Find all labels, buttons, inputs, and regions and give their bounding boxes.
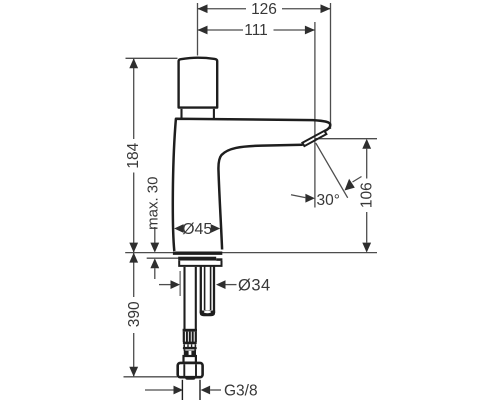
- wire: extension line at knob top (184 top reference): [126, 57, 178, 59]
- thread pipe walls: [181, 380, 183, 400]
- hose barrel ridges: [184, 344, 195, 347]
- wire: axis extension line above knob: [197, 3, 199, 56]
- nut bottom tab: [185, 377, 195, 379]
- dimension 111 line: [198, 29, 244, 31]
- svg-text:390: 390: [126, 301, 143, 327]
- svg-text:Ø34: Ø34: [238, 276, 271, 294]
- svg-text:max. 30: max. 30: [145, 177, 162, 230]
- dimension Ø34: [159, 284, 171, 286]
- dimension 106 vertical line: [366, 149, 368, 179]
- hose ridged collar: [184, 332, 196, 342]
- wire: Ø34 left extension line: [179, 271, 181, 296]
- svg-text:106: 106: [358, 182, 375, 208]
- dimension G3/8: [145, 389, 174, 391]
- svg-text:184: 184: [125, 142, 142, 168]
- wire: deck bottom line: [147, 257, 179, 259]
- hose band 1: [183, 329, 197, 332]
- flange dark bar: [178, 257, 216, 261]
- right tube bottom cap: [200, 311, 215, 317]
- right tube outer walls: [200, 266, 202, 313]
- body and spout top outline: [173, 119, 330, 251]
- flange lower outline: [179, 261, 221, 266]
- wire: aerator height reference line: [315, 138, 377, 140]
- hose band 2: [183, 342, 197, 345]
- 30deg arrow at plumb line: [305, 194, 315, 203]
- svg-text:30°: 30°: [317, 192, 340, 209]
- connector gap walls: [183, 349, 185, 350]
- dimension 184 vertical line: [133, 58, 135, 139]
- handle knob: [179, 58, 218, 108]
- body bottom bar: [173, 252, 222, 255]
- dimension max. 30 vertical line: [154, 227, 156, 246]
- svg-text:111: 111: [244, 22, 268, 39]
- connector dark block: [184, 351, 196, 356]
- dimension 390 vertical line: [133, 253, 135, 297]
- wire: deck top line: [125, 252, 377, 254]
- aerator (angled): [302, 131, 326, 146]
- wire: extension line at hose bottom (390 bottom reference): [124, 376, 178, 378]
- hose band 3: [183, 347, 197, 350]
- right tube inner walls: [204, 266, 206, 310]
- svg-text:Ø45: Ø45: [182, 221, 212, 238]
- shank left pipe: [183, 267, 185, 330]
- collar above nut: [184, 356, 196, 363]
- dimension Ø45: [174, 224, 184, 233]
- wire: aerator plumb extension line (right end of 111): [314, 22, 316, 208]
- handle neck: [180, 109, 182, 119]
- wire: 30deg diagonal line: [316, 143, 348, 198]
- spout underside and body right edge: [218, 145, 302, 250]
- svg-text:126: 126: [251, 1, 277, 18]
- dimension 126 line: [198, 8, 247, 10]
- wire: spout-tip extension line (right end of 126): [330, 3, 332, 129]
- flange step: [216, 258, 222, 261]
- nut G3/8: [178, 363, 203, 377]
- 30deg arrow on diagonal: [345, 179, 355, 191]
- svg-text:G3/8: G3/8: [224, 382, 258, 399]
